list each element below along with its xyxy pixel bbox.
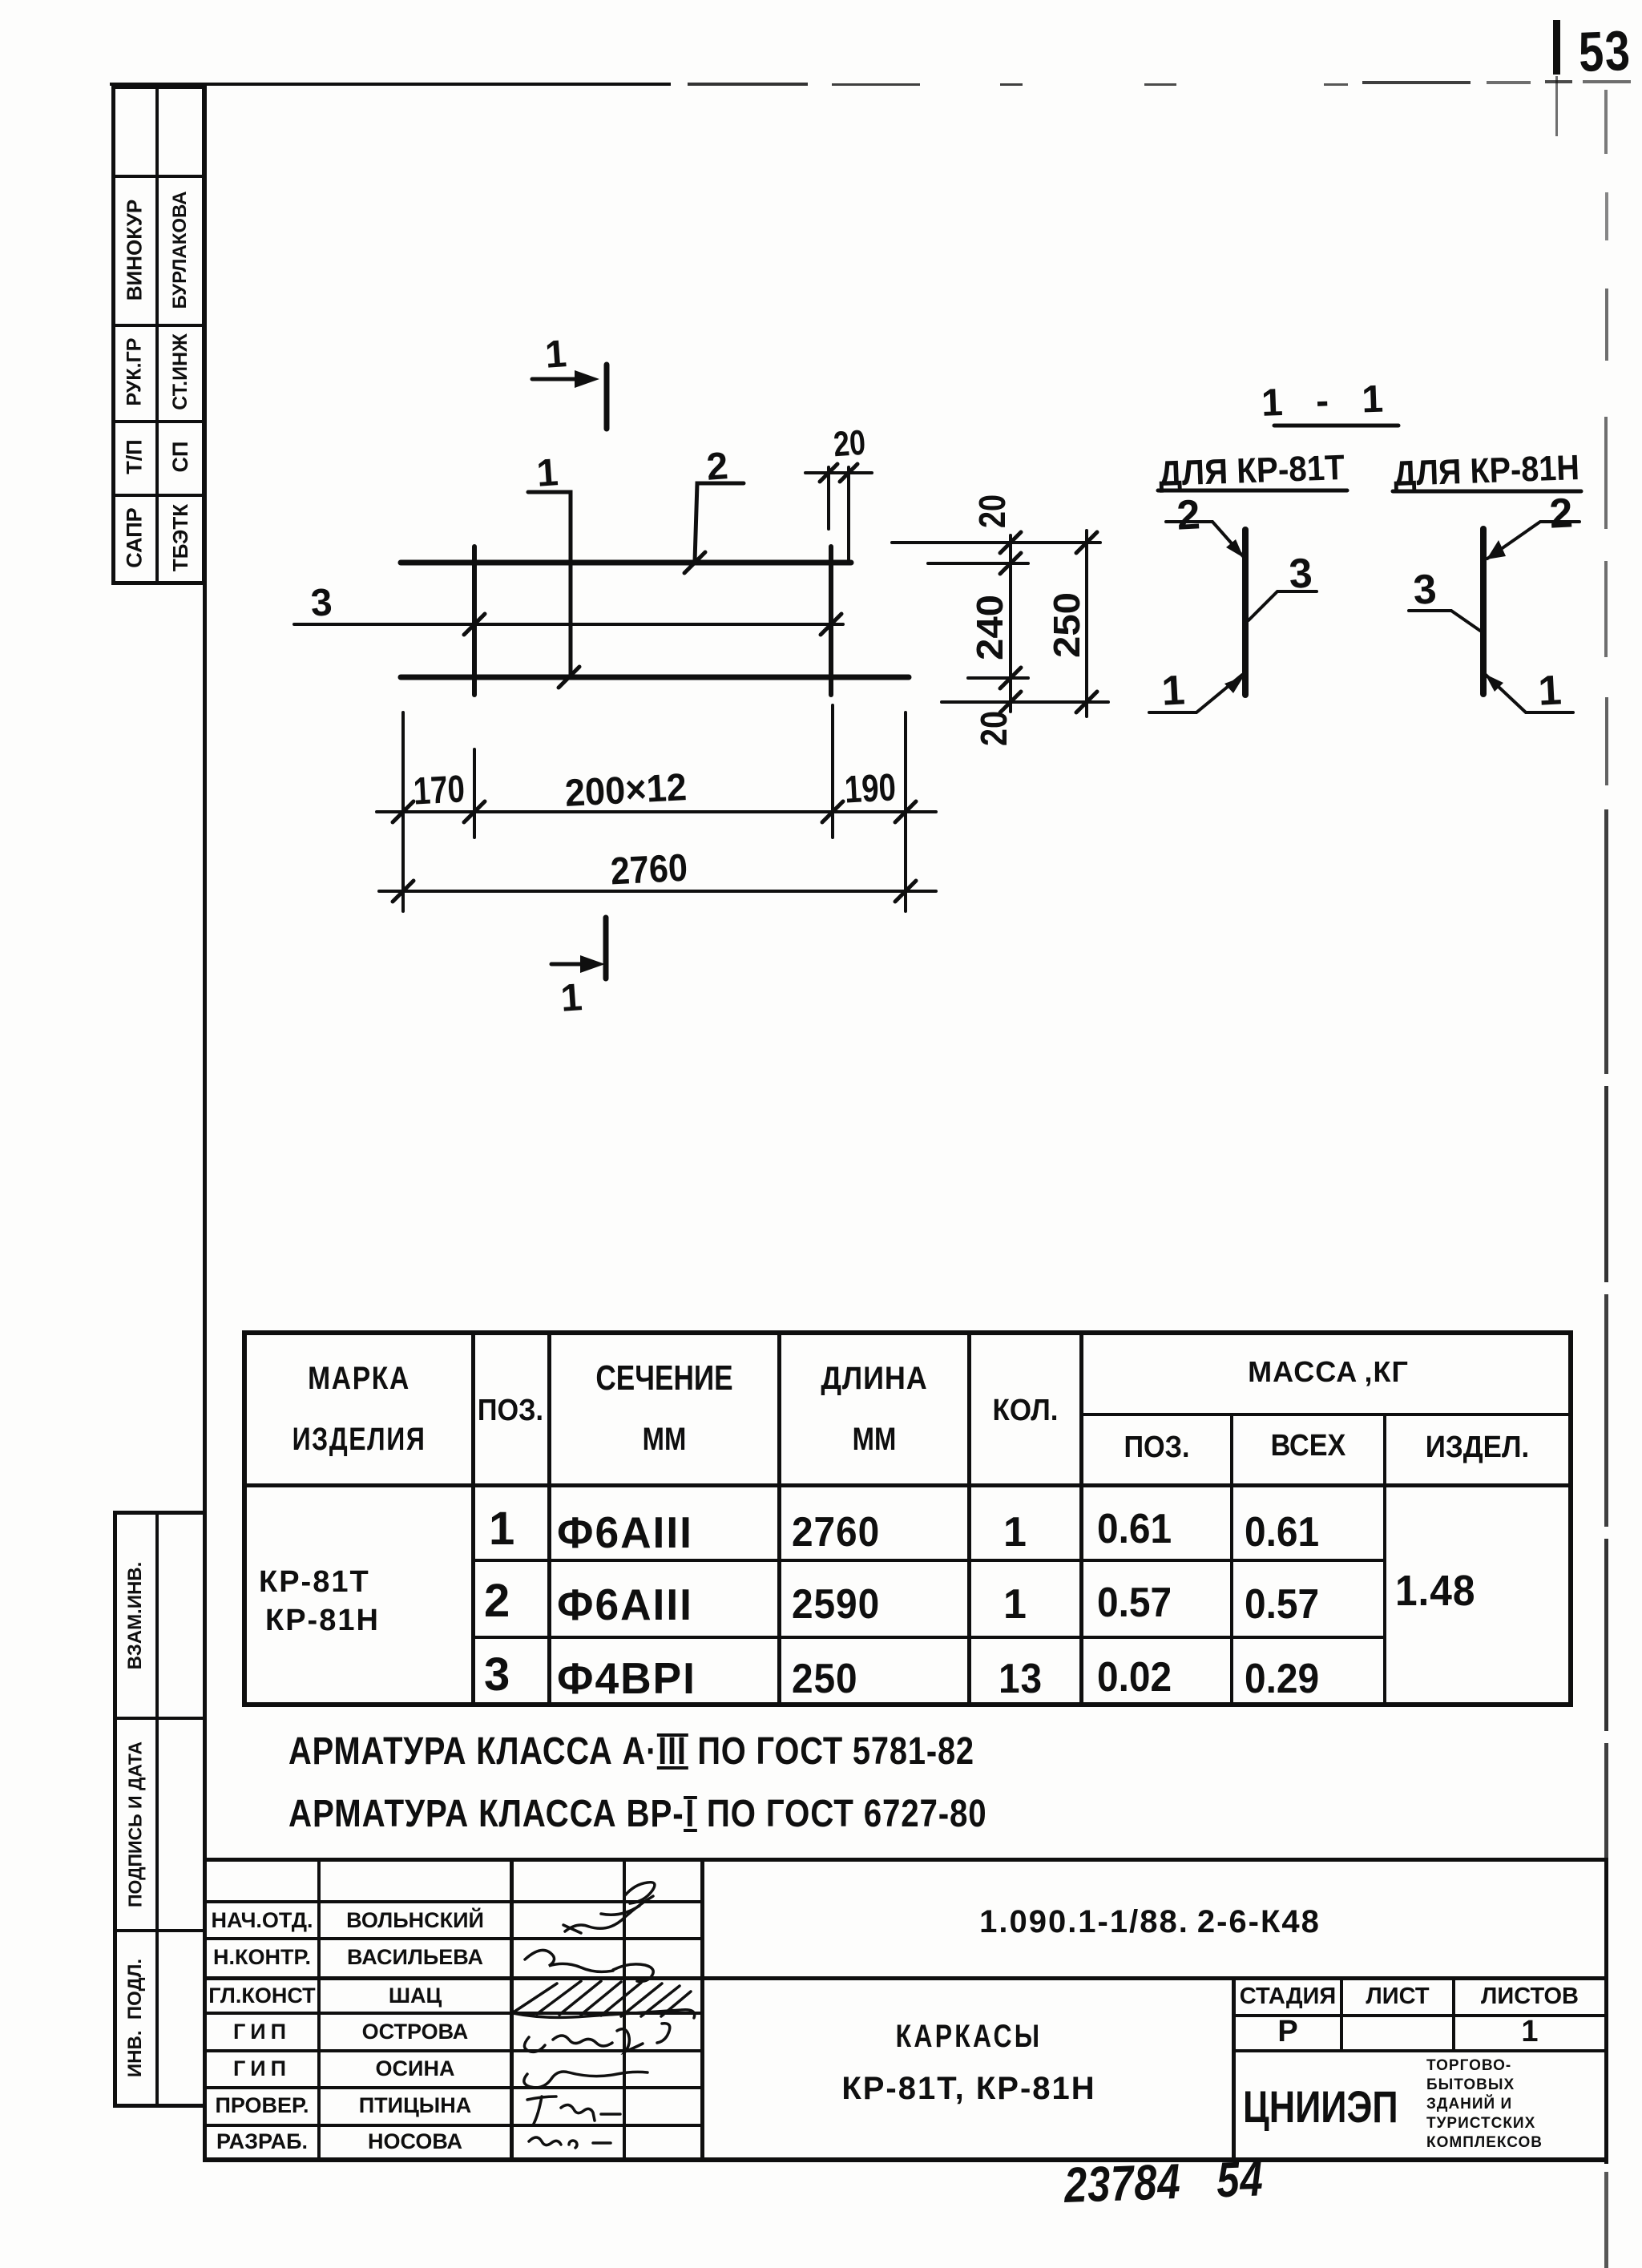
- lower-left stamp grid: [113, 1511, 117, 2108]
- T-version cross bar (pos 3): [1242, 530, 1249, 695]
- rebar bottom bar (pos 1): [401, 675, 909, 680]
- header ПОЗ.: [478, 1394, 544, 1427]
- archive number 23784 54: [1063, 2154, 1265, 2211]
- PART:DRAWING: [240, 313, 1162, 1034]
- stamp cell ПОДПИСЬ И ДАТА: [31, 1802, 240, 1847]
- svg-text:190: 190: [844, 766, 898, 811]
- role НАЧ.ОТД.: [207, 1903, 317, 1937]
- H leader 2: [1487, 522, 1579, 559]
- header ЛИСТ: [1343, 1979, 1452, 2013]
- tick middle-left: [464, 614, 485, 635]
- dim 20 top extension lines: [827, 467, 830, 529]
- row 2: poz 2: [484, 1578, 510, 1624]
- T leader 3: [1249, 591, 1317, 620]
- leader pos 2: [695, 483, 744, 561]
- signature ШАЦ (hatched scribble): [514, 1981, 691, 2016]
- title КАРКАСЫ: [757, 2020, 1180, 2052]
- page number 53: [1578, 22, 1632, 80]
- title КР-81Т, КР-81Н: [704, 2072, 1233, 2105]
- signature НОСОВА: [529, 2137, 611, 2148]
- right extension line B: [928, 562, 1028, 565]
- svg-text:1: 1: [1537, 667, 1563, 714]
- stamp cell СП: [144, 434, 216, 480]
- rebar top bar (pos 2): [401, 560, 851, 566]
- slashes outer dim: [1076, 532, 1097, 553]
- bottom dim extension verticals: [401, 712, 405, 911]
- H leader 3: [1409, 611, 1480, 631]
- tick top bar leader 2: [684, 552, 705, 573]
- PART:SECTIONS: [1122, 353, 1642, 761]
- title block outer horizontals: [205, 1858, 1608, 1862]
- header ЛИСТОВ: [1455, 1979, 1604, 2013]
- header СЕЧЕНИЕ ММ: [574, 1362, 755, 1394]
- note line 2: АРМАТУРА КЛАССА ВР-I ПО ГОСТ 6727-80: [288, 1795, 987, 1834]
- title block verticals: [317, 1858, 321, 2160]
- svg-text:2: 2: [1176, 491, 1201, 539]
- svg-text:2: 2: [1548, 490, 1574, 537]
- slashes dim line 1: [393, 801, 414, 822]
- signature ОСТРОВА: [524, 2029, 643, 2052]
- rebar middle bar (pos 3): [294, 623, 843, 626]
- subheader ИЗДЕЛ.: [1394, 1431, 1561, 1463]
- cell ИЗДЕЛ 1.48: [1395, 1569, 1475, 1612]
- stamp cell САПР: [91, 515, 178, 561]
- T leader 2: [1166, 522, 1243, 556]
- svg-text:1: 1: [1160, 667, 1186, 714]
- svg-text:250: 250: [1046, 592, 1087, 658]
- inner vertical dim line: [1009, 535, 1012, 712]
- slashes dim line 2: [393, 881, 414, 902]
- stamp cell ВЗАМ.ИНВ.: [34, 1593, 236, 1638]
- row 3: poz 3: [484, 1652, 510, 1698]
- svg-text:170: 170: [413, 768, 466, 813]
- frame top broken line: [110, 83, 671, 86]
- sheets 1: [1455, 2016, 1604, 2048]
- signatures: [505, 1859, 737, 2172]
- stamp cell РУК.ГР: [87, 349, 182, 395]
- svg-text:20: 20: [832, 423, 866, 465]
- signature ВОЛЬНСКИЙ: [563, 1896, 653, 1933]
- table border horizontals: [242, 1330, 1573, 1335]
- stamp cell ТБЭТК: [137, 515, 224, 561]
- svg-text:ДЛЯ КР-81Т: ДЛЯ КР-81Т: [1158, 448, 1345, 494]
- subheader ПОЗ.: [1091, 1431, 1223, 1463]
- header ДЛИНА ММ: [791, 1362, 958, 1394]
- leader pos 1: [528, 492, 571, 675]
- T leader 1: [1149, 675, 1242, 712]
- header КОЛ.: [975, 1394, 1075, 1427]
- frame left border: [203, 84, 207, 2162]
- right extension line A: [892, 541, 1100, 544]
- frame right broken border (page scan edge): [1604, 90, 1608, 154]
- svg-text:3: 3: [309, 581, 333, 624]
- caption underline H: [1393, 490, 1581, 494]
- role ГИП 1: [207, 2015, 317, 2048]
- left cross bar: [472, 547, 477, 695]
- cell КР-81Т КР-81Н: [259, 1567, 370, 1597]
- right extension line C: [968, 676, 1028, 680]
- role ГЛ.КОНСТ: [207, 1979, 317, 2012]
- table border verticals: [242, 1330, 247, 1707]
- title block row lines (left part): [205, 1900, 704, 1903]
- svg-text:1: 1: [543, 333, 567, 377]
- outer vertical dim line: [1085, 531, 1088, 716]
- dim 20 top slashes: [820, 464, 837, 482]
- svg-text:1: 1: [535, 451, 559, 495]
- tick middle-right: [821, 614, 841, 635]
- svg-text:1 - 1: 1 - 1: [1261, 377, 1395, 425]
- dim 20 top dim line: [805, 471, 872, 474]
- header МАРКА ИЗДЕЛИЯ: [264, 1362, 453, 1394]
- svg-text:ДЛЯ КР-81Н: ДЛЯ КР-81Н: [1393, 448, 1580, 494]
- svg-text:2760: 2760: [610, 847, 689, 894]
- bottom dim line 2: [379, 890, 936, 893]
- H leader 1: [1486, 675, 1573, 712]
- role ПРОВЕР.: [207, 2088, 317, 2122]
- section title underline: [1274, 424, 1398, 428]
- right extension line D: [942, 700, 1108, 704]
- svg-text:1: 1: [559, 976, 583, 1020]
- note line 1: АРМАТУРА КЛАССА А-III ПО ГОСТ 5781-82: [288, 1733, 974, 1771]
- stamp cell СТ.ИНЖ: [133, 349, 228, 395]
- org ЦНИИЭП: [1243, 2084, 1398, 2129]
- H-version cross bar (pos 3): [1480, 529, 1487, 694]
- signature ПТИЦЫНА: [527, 2096, 620, 2124]
- subheader ВСЕХ: [1241, 1430, 1375, 1462]
- slashes inner dim: [1000, 532, 1021, 553]
- caption underline T: [1158, 489, 1347, 493]
- svg-text:20: 20: [971, 494, 1013, 528]
- title block row lines (right part): [1232, 2014, 1608, 2017]
- signature ОСИНА: [524, 2072, 648, 2088]
- section cut arrow bottom: [551, 962, 583, 967]
- header СТАДИЯ: [1236, 1979, 1340, 2013]
- title block right edge: [1604, 1858, 1608, 2162]
- stamp cell Т/П: [99, 434, 171, 480]
- svg-text:3: 3: [1412, 566, 1438, 613]
- doc number 1.090.1-1/88. 2-6-К48: [692, 1899, 1608, 1944]
- svg-text:20: 20: [973, 711, 1015, 746]
- bottom dim line 1: [377, 810, 936, 813]
- section cut arrow top: [532, 377, 577, 381]
- section cut line bottom: [603, 918, 609, 979]
- stamp cell БУРЛАКОВА: [106, 227, 255, 273]
- svg-text:200×12: 200×12: [564, 766, 688, 815]
- upper-left stamp grid: [111, 85, 115, 584]
- stamp cell ВИНОКУР: [60, 228, 209, 273]
- right cross bar: [829, 547, 833, 695]
- row 1: poz 1: [489, 1506, 514, 1552]
- tick bottom bar leader 1: [559, 667, 579, 688]
- role Н.КОНТР.: [207, 1940, 317, 1974]
- section cut line top: [604, 365, 610, 429]
- role РАЗРАБ.: [207, 2125, 317, 2157]
- header МАССА,КГ: [1083, 1356, 1573, 1388]
- svg-text:240: 240: [969, 595, 1011, 660]
- signature ВАСИЛЬЕВА: [525, 1950, 653, 1981]
- role ГИП 2: [207, 2052, 317, 2085]
- org small text: [1426, 2056, 1543, 2153]
- stage Р: [1236, 2016, 1340, 2048]
- stamp cell ИНВ. ПОДЛ.: [50, 1996, 221, 2040]
- page number mark tick: [1553, 20, 1560, 75]
